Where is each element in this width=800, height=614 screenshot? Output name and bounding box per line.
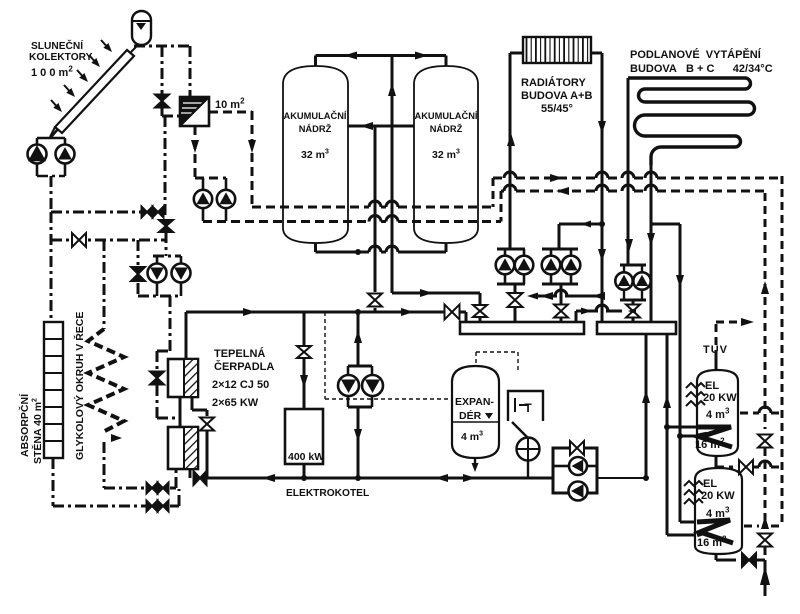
- label ABSORPCNI STENA 40 m2: [18, 393, 44, 464]
- valve heat pump outlet: [206, 410, 209, 416]
- boiler pump downcomer: [357, 407, 360, 478]
- double valve bottom lower: [147, 501, 153, 512]
- floor return branch: [651, 223, 680, 226]
- second circuit wire: [51, 239, 165, 242]
- solar secondary pump piping: [195, 177, 226, 180]
- riser valve pair: [164, 116, 167, 220]
- tank mid risers: [374, 126, 377, 252]
- valve group2: [554, 305, 568, 312]
- lower coil return: [667, 534, 697, 537]
- boiler bottom wire: [303, 464, 306, 478]
- svg-text:2×65 KW: 2×65 KW: [212, 397, 259, 409]
- svg-text:DÉR: DÉR: [459, 409, 482, 422]
- cold water inlet: [764, 560, 767, 596]
- valve station bypass: [570, 441, 577, 455]
- solar secondary pump A: [194, 190, 212, 208]
- radiator dashed flow lower: [501, 190, 504, 193]
- svg-text:NÁDRŽ: NÁDRŽ: [430, 123, 463, 134]
- upper coil return: [680, 435, 697, 438]
- sun ray arrows: [101, 40, 110, 50]
- left circuit vertical: [50, 212, 53, 322]
- bottom lower wire to riser: [170, 505, 179, 508]
- lower coil feed: [679, 436, 682, 522]
- svg-text:ELEKTROKOTEL: ELEKTROKOTEL: [286, 488, 369, 499]
- three-way valve group3: [626, 305, 640, 312]
- svg-text:KOLEKTORY: KOLEKTORY: [29, 52, 93, 63]
- valve condenser return: [194, 471, 201, 485]
- valve river downcomer: [156, 351, 159, 371]
- jog wire upper-to-radiator dashed: [492, 178, 495, 207]
- TUV outlet dashed: [715, 358, 718, 371]
- heat pump U2: [168, 427, 198, 469]
- tank charge dashed line lower: [203, 220, 369, 223]
- svg-text:32 m3: 32 m3: [301, 149, 329, 162]
- svg-text:55/45°: 55/45°: [541, 103, 573, 115]
- solar collector panel: [55, 50, 134, 133]
- pump station frame: [553, 448, 597, 493]
- glycol downcomer: [103, 240, 106, 329]
- control pump motor: [517, 438, 540, 461]
- pump group 3 riser: [620, 264, 646, 267]
- boiler pump riser: [357, 312, 360, 366]
- circulation pump 2a: [542, 256, 561, 275]
- upper tank side dashed: [740, 412, 759, 415]
- heating element upper: [686, 383, 705, 388]
- electric boiler 400 kW: [285, 409, 323, 464]
- circulation pump 1b: [515, 256, 534, 275]
- upper tank bottom dashed: [715, 456, 718, 467]
- svg-text:SLUNEČNÍ: SLUNEČNÍ: [31, 39, 84, 52]
- control dashed wire: [324, 312, 326, 399]
- coil lower tank: [697, 520, 733, 543]
- svg-text:EL: EL: [703, 478, 717, 490]
- bottom dashdot wire upper: [104, 487, 146, 490]
- lower tank side dashed: [744, 525, 759, 528]
- svg-text:BUDOVA A+B: BUDOVA A+B: [521, 90, 592, 102]
- radiator return pipe: [591, 52, 602, 55]
- upper coil feed: [667, 426, 697, 429]
- river to evaporator wire: [157, 417, 178, 420]
- zigzag outlet wire: [103, 442, 106, 488]
- accumulation tank 1: [283, 66, 348, 243]
- valve on supply wire: [445, 305, 453, 320]
- manifold2 to coil wire: [666, 334, 669, 535]
- recirculation riser dashed: [781, 176, 784, 526]
- wall bottom wire: [52, 458, 55, 506]
- loop left riser: [185, 312, 188, 359]
- svg-text:ABSORPČNÍ: ABSORPČNÍ: [18, 393, 31, 457]
- tank mid connector: [348, 125, 414, 128]
- coil upper tank: [697, 427, 732, 447]
- DHW tank lower: [695, 468, 742, 554]
- left circuit top wire: [51, 211, 141, 214]
- solar collector pump B: [56, 145, 75, 164]
- solar top pipe: [134, 45, 190, 48]
- solar collector pump A: [28, 145, 47, 164]
- circulation pump 3b: [633, 272, 650, 289]
- svg-text:ČERPADLA: ČERPADLA: [214, 360, 274, 373]
- expander drain: [474, 458, 476, 464]
- lower tank bottom wire: [715, 553, 718, 560]
- manifold 1: [460, 322, 584, 334]
- loop top wire: [186, 311, 466, 314]
- svg-text:32 m3: 32 m3: [432, 149, 460, 162]
- solar secondary pump B: [217, 190, 235, 208]
- svg-text:AKUMULAČNÍ: AKUMULAČNÍ: [414, 110, 477, 121]
- pump group 2 header: [542, 248, 578, 251]
- manifold 2: [597, 322, 676, 334]
- cold water riser dashed: [764, 193, 767, 429]
- tank charge dashed line upper: [252, 206, 369, 209]
- discharge right wire: [391, 252, 394, 293]
- exchanger secondary out dashed: [209, 111, 252, 114]
- pressure control unit T: [508, 391, 543, 421]
- valve discharge left: [374, 252, 377, 292]
- branch to DHW coils: [679, 224, 682, 436]
- heat pump U1: [168, 359, 198, 397]
- tank top header: [316, 54, 447, 57]
- valve boiler inlet: [303, 312, 306, 346]
- main bottom wire: [207, 477, 553, 480]
- svg-text:NÁDRŽ: NÁDRŽ: [299, 123, 332, 134]
- heating element lower: [684, 481, 703, 486]
- solar riser to exchanger: [189, 46, 192, 97]
- river pump feed valve: [137, 240, 140, 265]
- svg-text:20 KW: 20 KW: [703, 392, 737, 404]
- svg-text:1 0 0 m2: 1 0 0 m2: [31, 65, 73, 80]
- valve solar riser: [161, 46, 164, 94]
- junction dots: [355, 249, 361, 255]
- heat exchanger 10 m2: [180, 97, 209, 126]
- double valve bottom upper: [147, 483, 153, 494]
- circulation pump 1a: [496, 256, 515, 275]
- svg-text:STĚNA 40 m2: STĚNA 40 m2: [31, 398, 44, 464]
- station outlet wire: [597, 477, 646, 479]
- absorber wall column: [44, 322, 63, 458]
- station pump A: [569, 457, 587, 475]
- valve on second wire: [72, 233, 79, 247]
- heat pump interconnect: [179, 397, 182, 427]
- pump group 1 bottom: [497, 283, 525, 286]
- svg-text:EL: EL: [705, 380, 719, 392]
- radiator block: [523, 37, 591, 63]
- heat pump U2 bottom piping: [171, 469, 174, 470]
- three-way valve group1: [508, 293, 523, 300]
- svg-text:TEPELNÁ: TEPELNÁ: [214, 347, 265, 360]
- radiator dashed flow upper: [493, 177, 504, 180]
- svg-text:2×12 CJ 50: 2×12 CJ 50: [212, 379, 269, 391]
- river pump B: [172, 264, 191, 283]
- exchanger primary return: [194, 126, 197, 178]
- manifold2 to station wire: [645, 334, 648, 478]
- double valve left top: [142, 207, 148, 218]
- jog wire lower-to-radiator dashed: [500, 191, 503, 222]
- bottom dashdot wire lower: [53, 505, 146, 508]
- svg-text:GLYKOLOVÝ OKRUH V ŘECE: GLYKOLOVÝ OKRUH V ŘECE: [73, 312, 86, 460]
- pump group 2 riser: [558, 224, 561, 249]
- pump group 3 bottom: [620, 299, 646, 302]
- river circuit downcomer: [169, 296, 172, 351]
- boiler pump A: [338, 375, 359, 396]
- pump group 1 riser: [497, 248, 525, 251]
- svg-text:T: T: [524, 401, 532, 415]
- solar collector pump piping: [51, 129, 58, 137]
- circulation pump 2b: [562, 256, 581, 275]
- svg-text:RADIÁTORY: RADIÁTORY: [521, 76, 586, 89]
- svg-text:PODLANOVÉ VYTÁPĚNÍ: PODLANOVÉ VYTÁPĚNÍ: [630, 48, 762, 61]
- tank bottom header: [314, 243, 317, 252]
- svg-text:20 KW: 20 KW: [701, 490, 735, 502]
- expander vessel: [452, 366, 499, 458]
- svg-text:AKUMULAČNÍ: AKUMULAČNÍ: [283, 110, 346, 121]
- expander control dashed: [475, 352, 477, 366]
- floor heating serpentine: [628, 78, 755, 165]
- label GLYKOLOVY OKRUH V RECE: [73, 312, 86, 460]
- mixing wire group1-2: [533, 295, 557, 298]
- exchanger secondary downcomer: [251, 111, 254, 207]
- glycol river zigzag: [88, 329, 124, 433]
- loop corner to manifold: [465, 312, 468, 322]
- svg-text:EXPAN-: EXPAN-: [455, 396, 494, 408]
- circulation pump 3a: [615, 272, 632, 289]
- valve discharge right: [479, 293, 482, 304]
- svg-text:400 kW: 400 kW: [288, 451, 324, 463]
- floor return downcomer: [650, 165, 653, 322]
- bottom upper wire to riser: [170, 487, 176, 490]
- tank charge riser: [391, 56, 394, 127]
- boiler pump manifolds: [348, 365, 372, 368]
- solar downcomer wire: [50, 176, 53, 212]
- floor supply riser: [627, 78, 630, 265]
- accumulation tank 2: [414, 66, 478, 243]
- pump group 2 bottom: [542, 283, 578, 286]
- boiler pump B: [362, 375, 383, 396]
- river pump manifolds: [153, 255, 181, 258]
- station pump B: [569, 482, 588, 501]
- solar secondary pump outlets: [202, 208, 205, 221]
- expansion vessel solar: [132, 11, 151, 45]
- DHW tank upper: [697, 370, 738, 456]
- river pump A: [148, 264, 167, 283]
- supply wire to group3: [575, 311, 578, 322]
- radiator supply pipe: [510, 52, 523, 55]
- svg-text:BUDOVA B + C 42/34°C: BUDOVA B + C 42/34°C: [630, 63, 773, 75]
